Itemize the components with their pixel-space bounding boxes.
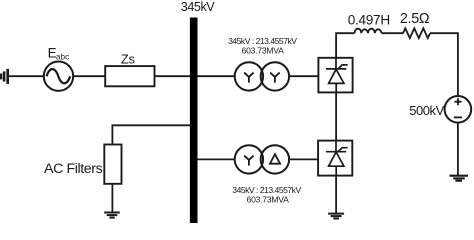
wire inductor to resistor (382, 32, 404, 34)
label 0.497H (348, 13, 390, 28)
svg-text:345kV : 213.4557kV: 345kV : 213.4557kV (228, 36, 297, 46)
ground (AC filter) (104, 213, 120, 218)
ground (left, sideways at AC source) (1, 69, 8, 84)
wire bus to AC filter branch (112, 125, 192, 144)
wire bus to transformer T1 (198, 75, 235, 77)
svg-text:Zs: Zs (121, 52, 136, 67)
ground (converter U2) (328, 214, 344, 219)
label Eabc (48, 46, 70, 62)
DC source 500kV (445, 96, 472, 123)
wire resistor to DC source (430, 33, 458, 96)
wire Zs to bus (155, 75, 191, 77)
label T2 ratio 345kV : 213.4557kV (232, 185, 301, 204)
wire AC filter to ground (111, 184, 113, 212)
wire T2 to converter U2 (289, 158, 318, 160)
converter U2 (box) (318, 141, 352, 176)
AC source Eabc (44, 61, 73, 90)
converter U1 (box) (318, 58, 352, 93)
svg-text:500kV: 500kV (409, 103, 444, 118)
svg-text:603.73MVA: 603.73MVA (247, 194, 290, 204)
wire bus to transformer T2 (198, 158, 235, 160)
wire ground to source Eabc (8, 75, 44, 77)
thyristor (inside U2) (326, 141, 348, 176)
transformer T2 (Y-Delta) (235, 145, 289, 173)
wire source to Zs (73, 75, 105, 77)
impedance Zs (box) (105, 66, 154, 86)
label 2.5ohm (400, 11, 430, 27)
wire T1 to converter U1 (289, 75, 318, 77)
thyristor (inside U1) (326, 58, 348, 93)
wire DC source to ground (457, 123, 459, 176)
wire U1 top to smoothing reactor (336, 33, 354, 58)
label T1 ratio 345kV : 213.4557kV (228, 36, 297, 56)
ground (DC source) (450, 176, 469, 181)
label 500kV (409, 103, 444, 118)
wire U1 to U2 (DC link) (335, 92, 337, 140)
wire U2 to ground (335, 176, 337, 214)
inductor 0.497H (smoothing reactor) (355, 29, 382, 34)
svg-text:abc: abc (56, 53, 69, 62)
svg-text:AC Filters: AC Filters (44, 161, 103, 177)
svg-text:345kV: 345kV (181, 0, 216, 14)
bus 345kV (thick bar) (190, 18, 198, 224)
transformer T1 (Y-Y) (235, 62, 289, 90)
label 345kV (bus) (181, 0, 216, 14)
label AC Filters (44, 161, 103, 177)
svg-text:0.497H: 0.497H (348, 13, 390, 28)
label Zs (121, 52, 136, 67)
svg-text:603.73MVA: 603.73MVA (242, 45, 285, 55)
AC filter bank (box) (104, 145, 121, 184)
resistor 2.5ohm (zigzag) (403, 28, 430, 38)
svg-text:2.5Ω: 2.5Ω (400, 11, 430, 27)
